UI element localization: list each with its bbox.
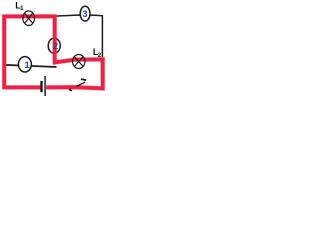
svg-text:2: 2 [98,52,102,59]
svg-text:2: 2 [53,41,58,51]
svg-text:1: 1 [25,60,30,70]
svg-text:3: 3 [82,9,87,19]
svg-text:1: 1 [20,5,24,12]
